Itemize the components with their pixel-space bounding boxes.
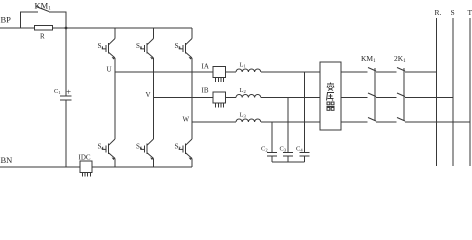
wire leg3 lower [191,122,193,139]
svg-text:+: + [66,87,71,97]
wire KM1 bypass right [49,12,66,28]
sensor IB [213,92,226,103]
wire KM1 to 2K1 row2 [376,97,397,99]
svg-text:R.: R. [435,8,442,17]
svg-text:R: R [40,33,45,41]
svg-text:S3: S3 [136,42,143,50]
wire S3 collector [153,28,155,39]
contact KM1-c blade [368,118,376,122]
svg-text:S5: S5 [175,42,182,50]
svg-text:S: S [451,8,455,17]
svg-text:KM1: KM1 [361,54,376,64]
sensor IDC [80,161,92,172]
sensor IDC pins [81,172,83,176]
wire S4 emitter to BN [114,158,116,167]
transformer label char 2 [327,93,335,101]
inductor L3 [236,119,261,122]
inductor L1 [236,69,261,72]
wire T bus [469,18,471,166]
junction node [65,27,68,30]
wire block to KM1 row1 [341,71,368,73]
contact KM1-b blade [368,93,376,97]
wire KM1 bypass left [21,12,39,28]
2K1 linkage [403,68,405,121]
svg-text:C4: C4 [296,146,303,153]
contact 2K1-a blade [397,68,405,72]
wire S2 emitter to BN [191,158,193,167]
transistor S3 [141,39,154,60]
transistor S4 [102,139,115,160]
wire IB to L2 [226,97,237,99]
sensor IB pins [215,103,217,108]
svg-text:L1: L1 [240,62,246,69]
transistor S2 [179,139,192,160]
svg-text:C3: C3 [280,146,287,153]
wire S1 collector [114,28,116,39]
wire BP input [0,27,35,29]
svg-text:S6: S6 [136,143,143,151]
inductor L2 [236,95,261,98]
svg-text:S1: S1 [98,42,104,50]
svg-text:L3: L3 [240,112,247,119]
svg-text:C1: C1 [54,88,61,95]
transformer label char 1 [327,83,334,91]
wire DC+ rail [53,27,193,29]
transistor S6 [141,139,154,160]
wire leg2 lower [153,98,155,140]
wire R bus [436,18,438,166]
svg-text:S4: S4 [98,143,105,151]
svg-text:IB: IB [202,87,209,95]
wire DC link down [65,28,67,96]
wire S3 emitter to V [153,58,155,98]
wire S6 emitter to BN [153,158,155,167]
wire V phase [154,97,214,99]
svg-text:KM1: KM1 [35,1,52,12]
contact KM1-a blade [368,68,376,72]
wire block to KM1 row2 [341,97,368,99]
svg-text:BP: BP [1,15,12,25]
wire S5 collector [191,28,193,39]
wire leg1 lower [114,72,116,139]
wire L2 to block [261,97,320,99]
svg-text:S2: S2 [175,143,181,151]
capacitor C2 [267,152,277,154]
sensor IA [213,67,226,78]
transformer block [320,62,341,130]
wire 2K1 to T [405,121,470,123]
wire 2K1 to R [405,71,437,73]
contact 2K1-b blade [397,93,405,97]
svg-text:IDC: IDC [79,154,91,162]
wire KM1 to 2K1 row1 [376,71,397,73]
wire KM1 to 2K1 row3 [376,121,397,123]
KM1 linkage [374,68,376,121]
wire block to KM1 row3 [341,121,368,123]
svg-text:BN: BN [1,155,13,165]
wire S1 emitter to U [114,58,116,72]
wire BN rail left [0,166,80,168]
resistor R [35,26,53,31]
svg-text:U: U [107,66,112,74]
wire BN rail right [92,166,192,168]
wire V to C3 [287,98,289,153]
svg-text:T: T [468,8,472,17]
capacitor C3 [283,152,293,154]
svg-text:W: W [183,116,190,124]
wire W to C2 [271,122,273,153]
wire L1 to block [261,71,320,73]
sensor IA pins [215,78,217,83]
wire C1 to BN rail [65,100,67,167]
wire 2K1 to S [405,97,453,99]
switch KM1 blade [36,7,49,12]
wire filter neutral bus [272,161,305,163]
capacitor C1 [60,95,72,97]
wire U phase [115,71,213,73]
capacitor C4 [300,152,310,154]
wire W phase [192,121,236,123]
svg-text:2K1: 2K1 [394,54,406,64]
wire IA to L1 [226,71,237,73]
contact 2K1-c blade [397,118,405,122]
wire L3 to block [261,121,320,123]
transistor S5 [179,39,192,60]
svg-text:L2: L2 [240,87,246,94]
svg-text:IA: IA [202,63,209,71]
svg-text:V: V [146,91,151,99]
wire S bus [452,18,454,166]
transistor S1 [102,39,115,60]
wire S5 emitter to W [191,58,193,122]
svg-text:C2: C2 [261,146,268,153]
transformer label char 3 [327,102,335,110]
wire U to C4 [304,72,306,153]
